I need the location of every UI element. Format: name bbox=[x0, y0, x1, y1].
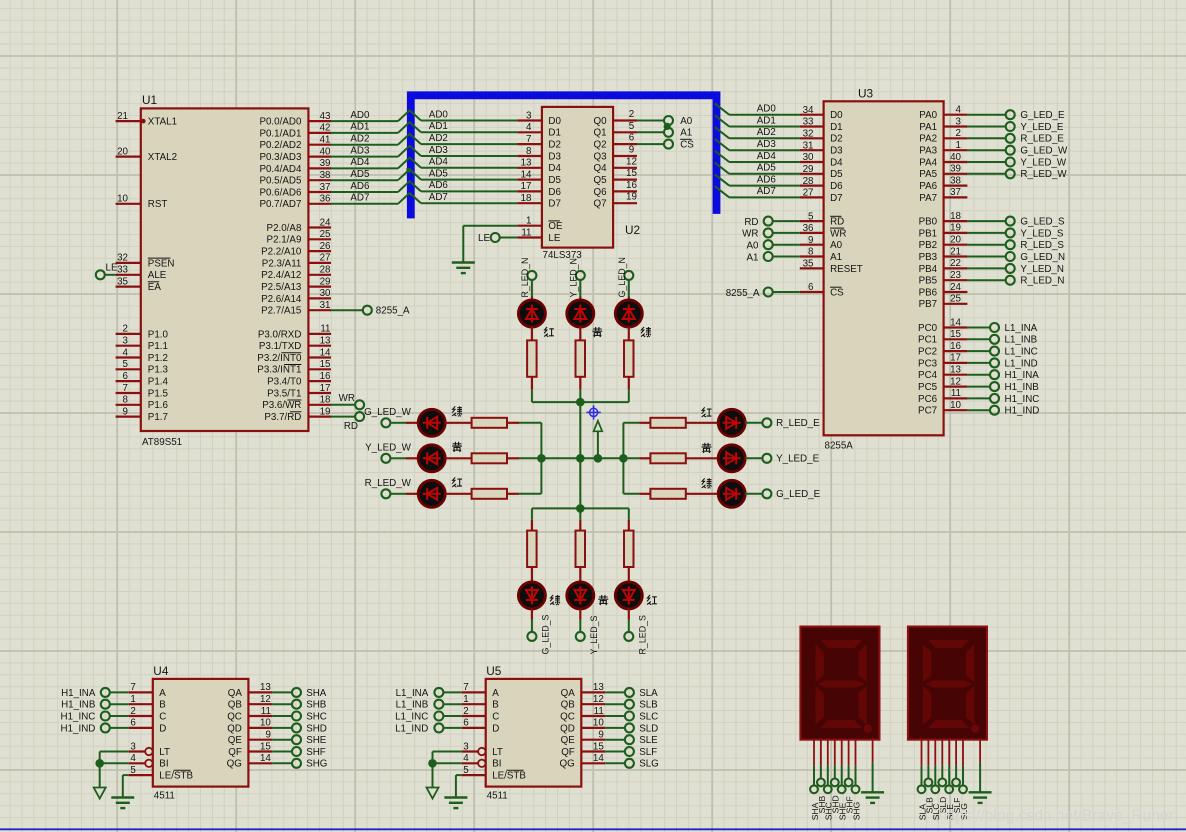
svg-text:AD1: AD1 bbox=[757, 115, 776, 126]
svg-text:SLA: SLA bbox=[639, 688, 658, 699]
svg-text:2: 2 bbox=[130, 706, 135, 717]
label 黄 east bbox=[702, 443, 712, 453]
svg-text:QA: QA bbox=[228, 688, 243, 699]
svg-text:P1.3: P1.3 bbox=[148, 365, 169, 376]
svg-text:H1_IND: H1_IND bbox=[1005, 406, 1040, 417]
svg-text:10: 10 bbox=[950, 400, 961, 411]
U3 pin PA2 bbox=[919, 128, 1064, 145]
7seg H1 pin SHF bbox=[845, 740, 855, 814]
wire center vertical bbox=[579, 402, 581, 508]
svg-text:U3: U3 bbox=[858, 87, 874, 101]
svg-text:P3.6/WR: P3.6/WR bbox=[262, 400, 301, 411]
svg-text:R_LED_N: R_LED_N bbox=[520, 258, 530, 298]
U2 pin D0 bbox=[517, 110, 561, 127]
svg-text:Y_LED_N: Y_LED_N bbox=[569, 258, 579, 297]
7seg L1 pin SLD bbox=[938, 740, 948, 814]
svg-text:14: 14 bbox=[950, 317, 961, 328]
U1 pin P2.0/A8 bbox=[267, 217, 332, 234]
terminal WR from U1 P3.6 bbox=[331, 393, 364, 409]
U3 pin RD with terminal bbox=[744, 211, 844, 228]
U2 pin Q3 bbox=[594, 145, 637, 163]
svg-text:LE/STB: LE/STB bbox=[159, 771, 193, 782]
svg-text:8255_A: 8255_A bbox=[726, 288, 760, 299]
svg-text:R_LED_E: R_LED_E bbox=[776, 418, 820, 429]
U3 pin PB4 bbox=[919, 258, 1064, 275]
svg-text:15: 15 bbox=[626, 168, 637, 179]
svg-text:29: 29 bbox=[803, 164, 814, 175]
U1 pin P3.3/INT1 bbox=[257, 359, 331, 376]
svg-text:P3.1/TXD: P3.1/TXD bbox=[259, 341, 301, 352]
terminal R_LED_E (east) bbox=[762, 418, 820, 429]
U3 pin PA1 bbox=[919, 116, 1064, 133]
svg-text:7: 7 bbox=[526, 134, 531, 145]
svg-text:PB1: PB1 bbox=[919, 228, 938, 239]
svg-text:PA7: PA7 bbox=[919, 193, 937, 204]
U3 pin D7 bbox=[800, 188, 843, 204]
svg-text:6: 6 bbox=[629, 133, 635, 144]
decoder U4 4511 body bbox=[153, 664, 249, 802]
U4 pin D bbox=[61, 718, 167, 735]
svg-text:13: 13 bbox=[950, 365, 961, 376]
svg-text:19: 19 bbox=[320, 406, 331, 417]
svg-text:8: 8 bbox=[526, 146, 532, 157]
U3 pin PC7 bbox=[918, 400, 1039, 417]
label 绿 west bbox=[452, 406, 462, 416]
svg-text:AD1: AD1 bbox=[350, 122, 369, 133]
svg-text:5: 5 bbox=[130, 765, 136, 776]
svg-text:9: 9 bbox=[808, 235, 813, 246]
svg-text:16: 16 bbox=[950, 341, 961, 352]
wire AD7 bus to U3 D7 bbox=[715, 186, 800, 197]
U1 pin P2.6/A14 bbox=[261, 288, 331, 305]
U1 pin P2.5/A13 bbox=[261, 276, 331, 293]
svg-text:C: C bbox=[159, 711, 166, 722]
svg-text:H1_INA: H1_INA bbox=[61, 688, 96, 699]
svg-text:12: 12 bbox=[260, 694, 271, 705]
svg-text:36: 36 bbox=[320, 194, 331, 205]
U1 pin XTAL2 bbox=[116, 146, 177, 163]
svg-text:P3.2/INT0: P3.2/INT0 bbox=[257, 353, 302, 364]
U2 pin Q1 bbox=[594, 121, 637, 139]
svg-text:P2.5/A13: P2.5/A13 bbox=[261, 282, 302, 293]
earth ground at U4 LE/STB bbox=[111, 775, 134, 808]
U3 pin A0 with terminal bbox=[747, 235, 843, 252]
svg-text:PB3: PB3 bbox=[919, 252, 938, 263]
U1 pin RST bbox=[116, 194, 168, 211]
terminal R_LED_N (north) bbox=[520, 258, 536, 298]
svg-text:BI: BI bbox=[159, 759, 168, 770]
svg-text:G_LED_S: G_LED_S bbox=[541, 614, 551, 654]
svg-text:LT: LT bbox=[492, 747, 503, 758]
led Y north bbox=[567, 280, 594, 327]
svg-text:AD1: AD1 bbox=[429, 121, 448, 132]
U1 pin P3.4/T0 bbox=[267, 371, 331, 388]
wire AD7 U1 to bus bbox=[331, 193, 398, 204]
U3 pin D1 bbox=[800, 117, 843, 133]
svg-text:G_LED_N: G_LED_N bbox=[1020, 252, 1065, 263]
svg-text:L1_INC: L1_INC bbox=[1005, 347, 1038, 358]
svg-text:P2.2/A10: P2.2/A10 bbox=[261, 247, 302, 258]
wire AD1 bus to U2 D1 bbox=[398, 121, 517, 133]
svg-text:SLG: SLG bbox=[639, 759, 659, 770]
resistor east 2 bbox=[623, 453, 718, 463]
U4 pin LE/STB bbox=[123, 765, 194, 782]
svg-text:7: 7 bbox=[130, 682, 135, 693]
svg-text:8255_A: 8255_A bbox=[376, 306, 410, 317]
svg-text:3: 3 bbox=[130, 741, 136, 752]
svg-text:15: 15 bbox=[950, 329, 961, 340]
U2 pin D4 bbox=[517, 158, 561, 175]
svg-text:8: 8 bbox=[808, 247, 814, 258]
svg-text:41: 41 bbox=[320, 135, 331, 146]
svg-text:16: 16 bbox=[626, 180, 637, 191]
svg-text:5: 5 bbox=[808, 211, 814, 222]
svg-text:P2.6/A14: P2.6/A14 bbox=[261, 294, 302, 305]
latch U2 74LS373 body bbox=[542, 107, 640, 261]
U5 pin QF bbox=[561, 741, 657, 758]
svg-text:AD6: AD6 bbox=[350, 181, 370, 192]
svg-text:Q4: Q4 bbox=[594, 163, 608, 174]
svg-text:39: 39 bbox=[950, 164, 961, 175]
svg-text:16: 16 bbox=[320, 371, 331, 382]
svg-text:AD4: AD4 bbox=[429, 157, 449, 168]
svg-text:P1.2: P1.2 bbox=[148, 353, 168, 364]
U1 pin P2.4/A12 bbox=[261, 265, 331, 282]
svg-text:PA3: PA3 bbox=[919, 146, 937, 157]
wire AD1 U1 to bus bbox=[331, 122, 398, 133]
svg-text:2: 2 bbox=[463, 706, 468, 717]
svg-text:P1.0: P1.0 bbox=[148, 329, 169, 340]
svg-text:2: 2 bbox=[956, 128, 961, 139]
decoder U5 4511 body bbox=[486, 664, 582, 802]
svg-text:SLD: SLD bbox=[639, 723, 658, 734]
svg-text:Q1: Q1 bbox=[594, 128, 607, 139]
label 黄 north bbox=[592, 327, 602, 337]
svg-text:6: 6 bbox=[808, 282, 814, 293]
U1 pin ALE bbox=[116, 265, 167, 282]
svg-text:Q3: Q3 bbox=[594, 151, 608, 162]
U3 pin PA7 bbox=[919, 187, 967, 204]
svg-text:QF: QF bbox=[561, 747, 575, 758]
svg-text:5: 5 bbox=[629, 121, 635, 132]
U3 pin WR with terminal bbox=[742, 223, 846, 240]
U3 pin PB1 bbox=[919, 223, 1064, 240]
svg-text:22: 22 bbox=[950, 258, 961, 269]
svg-text:CS: CS bbox=[830, 287, 844, 298]
svg-text:G_LED_E: G_LED_E bbox=[1020, 110, 1065, 121]
led G south bbox=[518, 582, 545, 632]
ground arrow at U4 LT/BI bbox=[94, 752, 106, 799]
svg-text:AD7: AD7 bbox=[757, 186, 776, 197]
svg-text:40: 40 bbox=[950, 152, 961, 163]
wire east group vertical bbox=[622, 423, 624, 494]
U4 pin B bbox=[61, 694, 166, 711]
7seg L1 pin SLC bbox=[931, 740, 941, 821]
7seg H1 pin SHE bbox=[838, 740, 848, 821]
svg-text:4511: 4511 bbox=[487, 791, 508, 802]
svg-text:15: 15 bbox=[320, 359, 331, 370]
U2 pin D5 bbox=[517, 169, 561, 186]
U1 pin P0.7/AD7 bbox=[259, 194, 331, 211]
svg-text:11: 11 bbox=[951, 388, 961, 399]
wire main horizontal bbox=[541, 457, 623, 459]
svg-text:P0.7/AD7: P0.7/AD7 bbox=[259, 199, 301, 210]
svg-text:B: B bbox=[492, 700, 499, 711]
terminal Y_LED_W (west) bbox=[365, 443, 411, 463]
svg-text:Y_LED_S: Y_LED_S bbox=[1020, 228, 1063, 239]
resistor west 2 bbox=[445, 453, 542, 463]
svg-text:D7: D7 bbox=[830, 193, 843, 204]
U1 pin P3.1/TXD bbox=[259, 336, 331, 353]
U1 pin PSEN bbox=[116, 253, 175, 270]
svg-text:A1: A1 bbox=[830, 252, 842, 263]
U3 pin PA6 bbox=[919, 175, 967, 192]
svg-text:3: 3 bbox=[956, 116, 962, 127]
svg-text:SHG: SHG bbox=[851, 801, 861, 820]
svg-text:R_LED_S: R_LED_S bbox=[1020, 240, 1064, 251]
U1 pin P2.1/A9 bbox=[267, 229, 332, 246]
U4 pin QD bbox=[227, 718, 327, 735]
svg-text:RESET: RESET bbox=[830, 264, 863, 275]
svg-text:P1.7: P1.7 bbox=[148, 412, 168, 423]
svg-text:4: 4 bbox=[130, 753, 136, 764]
U3 pin PB6 bbox=[919, 282, 968, 299]
svg-text:9: 9 bbox=[629, 145, 634, 156]
earth ground at U5 LE/STB bbox=[444, 775, 467, 808]
U1 pin P2.3/A11 bbox=[262, 253, 331, 270]
label 黄 south bbox=[598, 595, 608, 605]
svg-text:SLE: SLE bbox=[639, 735, 658, 746]
U4 pin LT bbox=[100, 741, 170, 758]
U3 pin PC2 bbox=[918, 341, 1038, 358]
terminal R_LED_W (west) bbox=[365, 478, 412, 498]
U1 pin P3.2/INT0 bbox=[257, 347, 331, 364]
U1 pin P3.6/WR bbox=[262, 395, 331, 412]
svg-text:PC1: PC1 bbox=[918, 335, 937, 346]
svg-text:P2.1/A9: P2.1/A9 bbox=[267, 235, 302, 246]
svg-text:L1_INC: L1_INC bbox=[395, 711, 428, 722]
junction arrow base bbox=[594, 454, 603, 463]
svg-text:18: 18 bbox=[521, 193, 532, 204]
svg-text:5: 5 bbox=[123, 359, 129, 370]
U3 pin PC6 bbox=[918, 388, 1039, 405]
svg-text:G_LED_W: G_LED_W bbox=[1020, 146, 1068, 157]
U5 pin QC bbox=[560, 706, 658, 723]
U4 pin C bbox=[61, 706, 167, 723]
U3 pin D6 bbox=[800, 176, 843, 192]
svg-text:11: 11 bbox=[594, 706, 604, 717]
svg-text:PA0: PA0 bbox=[919, 110, 937, 121]
label 红 east bbox=[702, 407, 712, 417]
svg-text:A: A bbox=[159, 688, 166, 699]
svg-text:PC6: PC6 bbox=[918, 394, 938, 405]
svg-text:D5: D5 bbox=[548, 175, 561, 186]
wire west group vertical bbox=[540, 423, 542, 494]
svg-text:3: 3 bbox=[526, 110, 532, 121]
svg-text:D3: D3 bbox=[830, 146, 843, 157]
U1 pin P1.1 bbox=[116, 336, 168, 353]
U3 pin D4 bbox=[800, 152, 843, 168]
U2 pin Q2 bbox=[594, 133, 637, 151]
svg-text:Y_LED_N: Y_LED_N bbox=[1020, 264, 1064, 275]
svg-text:28: 28 bbox=[320, 265, 331, 276]
svg-text:A0: A0 bbox=[830, 240, 843, 251]
wire AD2 bus to U2 D2 bbox=[398, 133, 517, 145]
svg-text:25: 25 bbox=[320, 229, 331, 240]
svg-text:33: 33 bbox=[803, 117, 814, 128]
U3 pin D2 bbox=[800, 129, 843, 145]
svg-text:LE: LE bbox=[478, 233, 490, 244]
svg-text:27: 27 bbox=[320, 253, 331, 264]
svg-text:A1: A1 bbox=[680, 128, 692, 139]
resistor east 1 bbox=[623, 418, 718, 428]
svg-text:13: 13 bbox=[260, 682, 271, 693]
svg-text:PC5: PC5 bbox=[918, 382, 938, 393]
svg-text:R_LED_S: R_LED_S bbox=[638, 615, 648, 655]
U5 pin QB bbox=[561, 694, 659, 711]
U1 pin P0.1/AD1 bbox=[259, 123, 331, 140]
led Y west bbox=[390, 445, 445, 472]
svg-text:BI: BI bbox=[492, 759, 501, 770]
svg-text:13: 13 bbox=[320, 336, 331, 347]
U3 pin A1 with terminal bbox=[747, 247, 843, 264]
svg-text:PC2: PC2 bbox=[918, 347, 937, 358]
7seg H1 pin SHG bbox=[851, 740, 861, 821]
svg-text:40: 40 bbox=[320, 146, 331, 157]
svg-text:31: 31 bbox=[320, 300, 331, 311]
svg-text:Q0: Q0 bbox=[594, 116, 608, 127]
svg-text:Q5: Q5 bbox=[594, 175, 608, 186]
svg-text:LE/STB: LE/STB bbox=[492, 771, 526, 782]
junction center bbox=[576, 454, 585, 463]
svg-text:21: 21 bbox=[950, 246, 961, 257]
svg-text:CS: CS bbox=[680, 140, 694, 151]
svg-text:A0: A0 bbox=[680, 116, 693, 127]
svg-text:P3.4/T0: P3.4/T0 bbox=[267, 377, 302, 388]
U1 pin XTAL1 bbox=[116, 111, 177, 128]
svg-text:P2.4/A12: P2.4/A12 bbox=[261, 270, 301, 281]
U5 pin C bbox=[395, 706, 499, 723]
U1 pin P0.0/AD0 bbox=[259, 111, 331, 128]
svg-text:D: D bbox=[492, 723, 499, 734]
svg-text:11: 11 bbox=[261, 706, 271, 717]
7seg L1 pin SLB bbox=[924, 740, 934, 814]
svg-text:P0.4/AD4: P0.4/AD4 bbox=[259, 164, 301, 175]
svg-text:24: 24 bbox=[950, 282, 961, 293]
svg-text:AD4: AD4 bbox=[350, 157, 370, 168]
wire AD4 bus to U2 D4 bbox=[398, 157, 517, 169]
svg-text:29: 29 bbox=[320, 276, 331, 287]
svg-text:30: 30 bbox=[320, 288, 331, 299]
svg-text:PB2: PB2 bbox=[919, 240, 938, 251]
svg-text:P2.7/A15: P2.7/A15 bbox=[261, 306, 302, 317]
svg-text:43: 43 bbox=[320, 111, 331, 122]
svg-text:AD3: AD3 bbox=[429, 145, 449, 156]
junction center-right bbox=[619, 454, 628, 463]
svg-text:17: 17 bbox=[320, 383, 331, 394]
svg-text:P0.2/AD2: P0.2/AD2 bbox=[259, 140, 301, 151]
resistor east 3 bbox=[623, 489, 718, 499]
svg-text:37: 37 bbox=[950, 187, 961, 198]
svg-text:17: 17 bbox=[950, 353, 961, 364]
svg-text:35: 35 bbox=[803, 259, 814, 270]
U1 pin P2.2/A10 bbox=[261, 241, 331, 258]
U3 pin PC0 bbox=[918, 317, 1038, 334]
junction center-left bbox=[537, 454, 546, 463]
svg-text:4: 4 bbox=[463, 753, 469, 764]
svg-text:SLF: SLF bbox=[639, 747, 657, 758]
U1 pin P1.4 bbox=[116, 371, 169, 388]
svg-text:PA4: PA4 bbox=[919, 157, 937, 168]
led Y east bbox=[718, 445, 763, 472]
svg-text:14: 14 bbox=[521, 169, 532, 180]
U4 pin QB bbox=[228, 694, 327, 711]
U1 pin P1.3 bbox=[116, 359, 169, 376]
U3 pin D0 bbox=[800, 105, 843, 121]
U1 pin P3.7/RD bbox=[264, 406, 331, 423]
svg-text:37: 37 bbox=[320, 182, 331, 193]
wire AD3 bus to U3 D3 bbox=[715, 139, 800, 150]
svg-text:12: 12 bbox=[950, 376, 961, 387]
svg-text:A: A bbox=[492, 688, 499, 699]
7seg L1 pin SLG bbox=[959, 740, 969, 821]
U2 pin Q5 bbox=[594, 168, 638, 186]
terminal R_LED_S (south) bbox=[624, 615, 647, 655]
U3 pin PC3 bbox=[918, 353, 1038, 370]
svg-text:WR: WR bbox=[742, 229, 758, 240]
svg-text:6: 6 bbox=[463, 718, 469, 729]
U3 pin PB5 bbox=[919, 270, 1065, 287]
wire AD5 bus to U3 D5 bbox=[715, 163, 800, 174]
svg-text:P1.1: P1.1 bbox=[148, 341, 168, 352]
resistor north 1 bbox=[527, 327, 537, 402]
terminal G_LED_E (east) bbox=[762, 489, 820, 500]
svg-text:AD2: AD2 bbox=[757, 127, 776, 138]
svg-text:20: 20 bbox=[117, 146, 128, 157]
svg-text:EA: EA bbox=[148, 282, 162, 293]
svg-text:7: 7 bbox=[463, 682, 468, 693]
wire AD0 bus to U3 D0 bbox=[715, 104, 800, 115]
svg-text:6: 6 bbox=[130, 718, 136, 729]
svg-text:12: 12 bbox=[593, 694, 604, 705]
U5 pin LE/STB bbox=[456, 765, 527, 782]
svg-text:C: C bbox=[492, 711, 499, 722]
origin marker (blue crosshair) bbox=[586, 405, 600, 419]
svg-text:P2.3/A11: P2.3/A11 bbox=[262, 258, 302, 269]
svg-text:H1_IND: H1_IND bbox=[61, 723, 96, 734]
svg-text:P0.5/AD5: P0.5/AD5 bbox=[259, 176, 301, 187]
7seg H1 pin SHB bbox=[817, 740, 827, 814]
svg-text:G_LED_S: G_LED_S bbox=[1020, 217, 1065, 228]
svg-text:D0: D0 bbox=[830, 110, 843, 121]
svg-text:G_LED_N: G_LED_N bbox=[617, 257, 627, 297]
resistor west 1 bbox=[445, 418, 542, 428]
svg-text:D7: D7 bbox=[548, 199, 561, 210]
svg-text:P1.5: P1.5 bbox=[148, 388, 169, 399]
svg-text:L1_INB: L1_INB bbox=[396, 700, 429, 711]
svg-text:D1: D1 bbox=[548, 128, 561, 139]
svg-text:3: 3 bbox=[463, 741, 469, 752]
svg-text:H1_INC: H1_INC bbox=[1005, 394, 1040, 405]
wire AD6 bus to U3 D6 bbox=[715, 174, 800, 185]
U4 pin QA bbox=[228, 682, 327, 699]
U3 pin PC5 bbox=[918, 376, 1039, 393]
junction north bbox=[576, 398, 585, 407]
svg-text:11: 11 bbox=[320, 324, 330, 335]
U1 pin P3.0/RXD bbox=[258, 324, 331, 341]
svg-text:Y_LED_W: Y_LED_W bbox=[1020, 157, 1066, 168]
svg-text:32: 32 bbox=[117, 253, 128, 264]
